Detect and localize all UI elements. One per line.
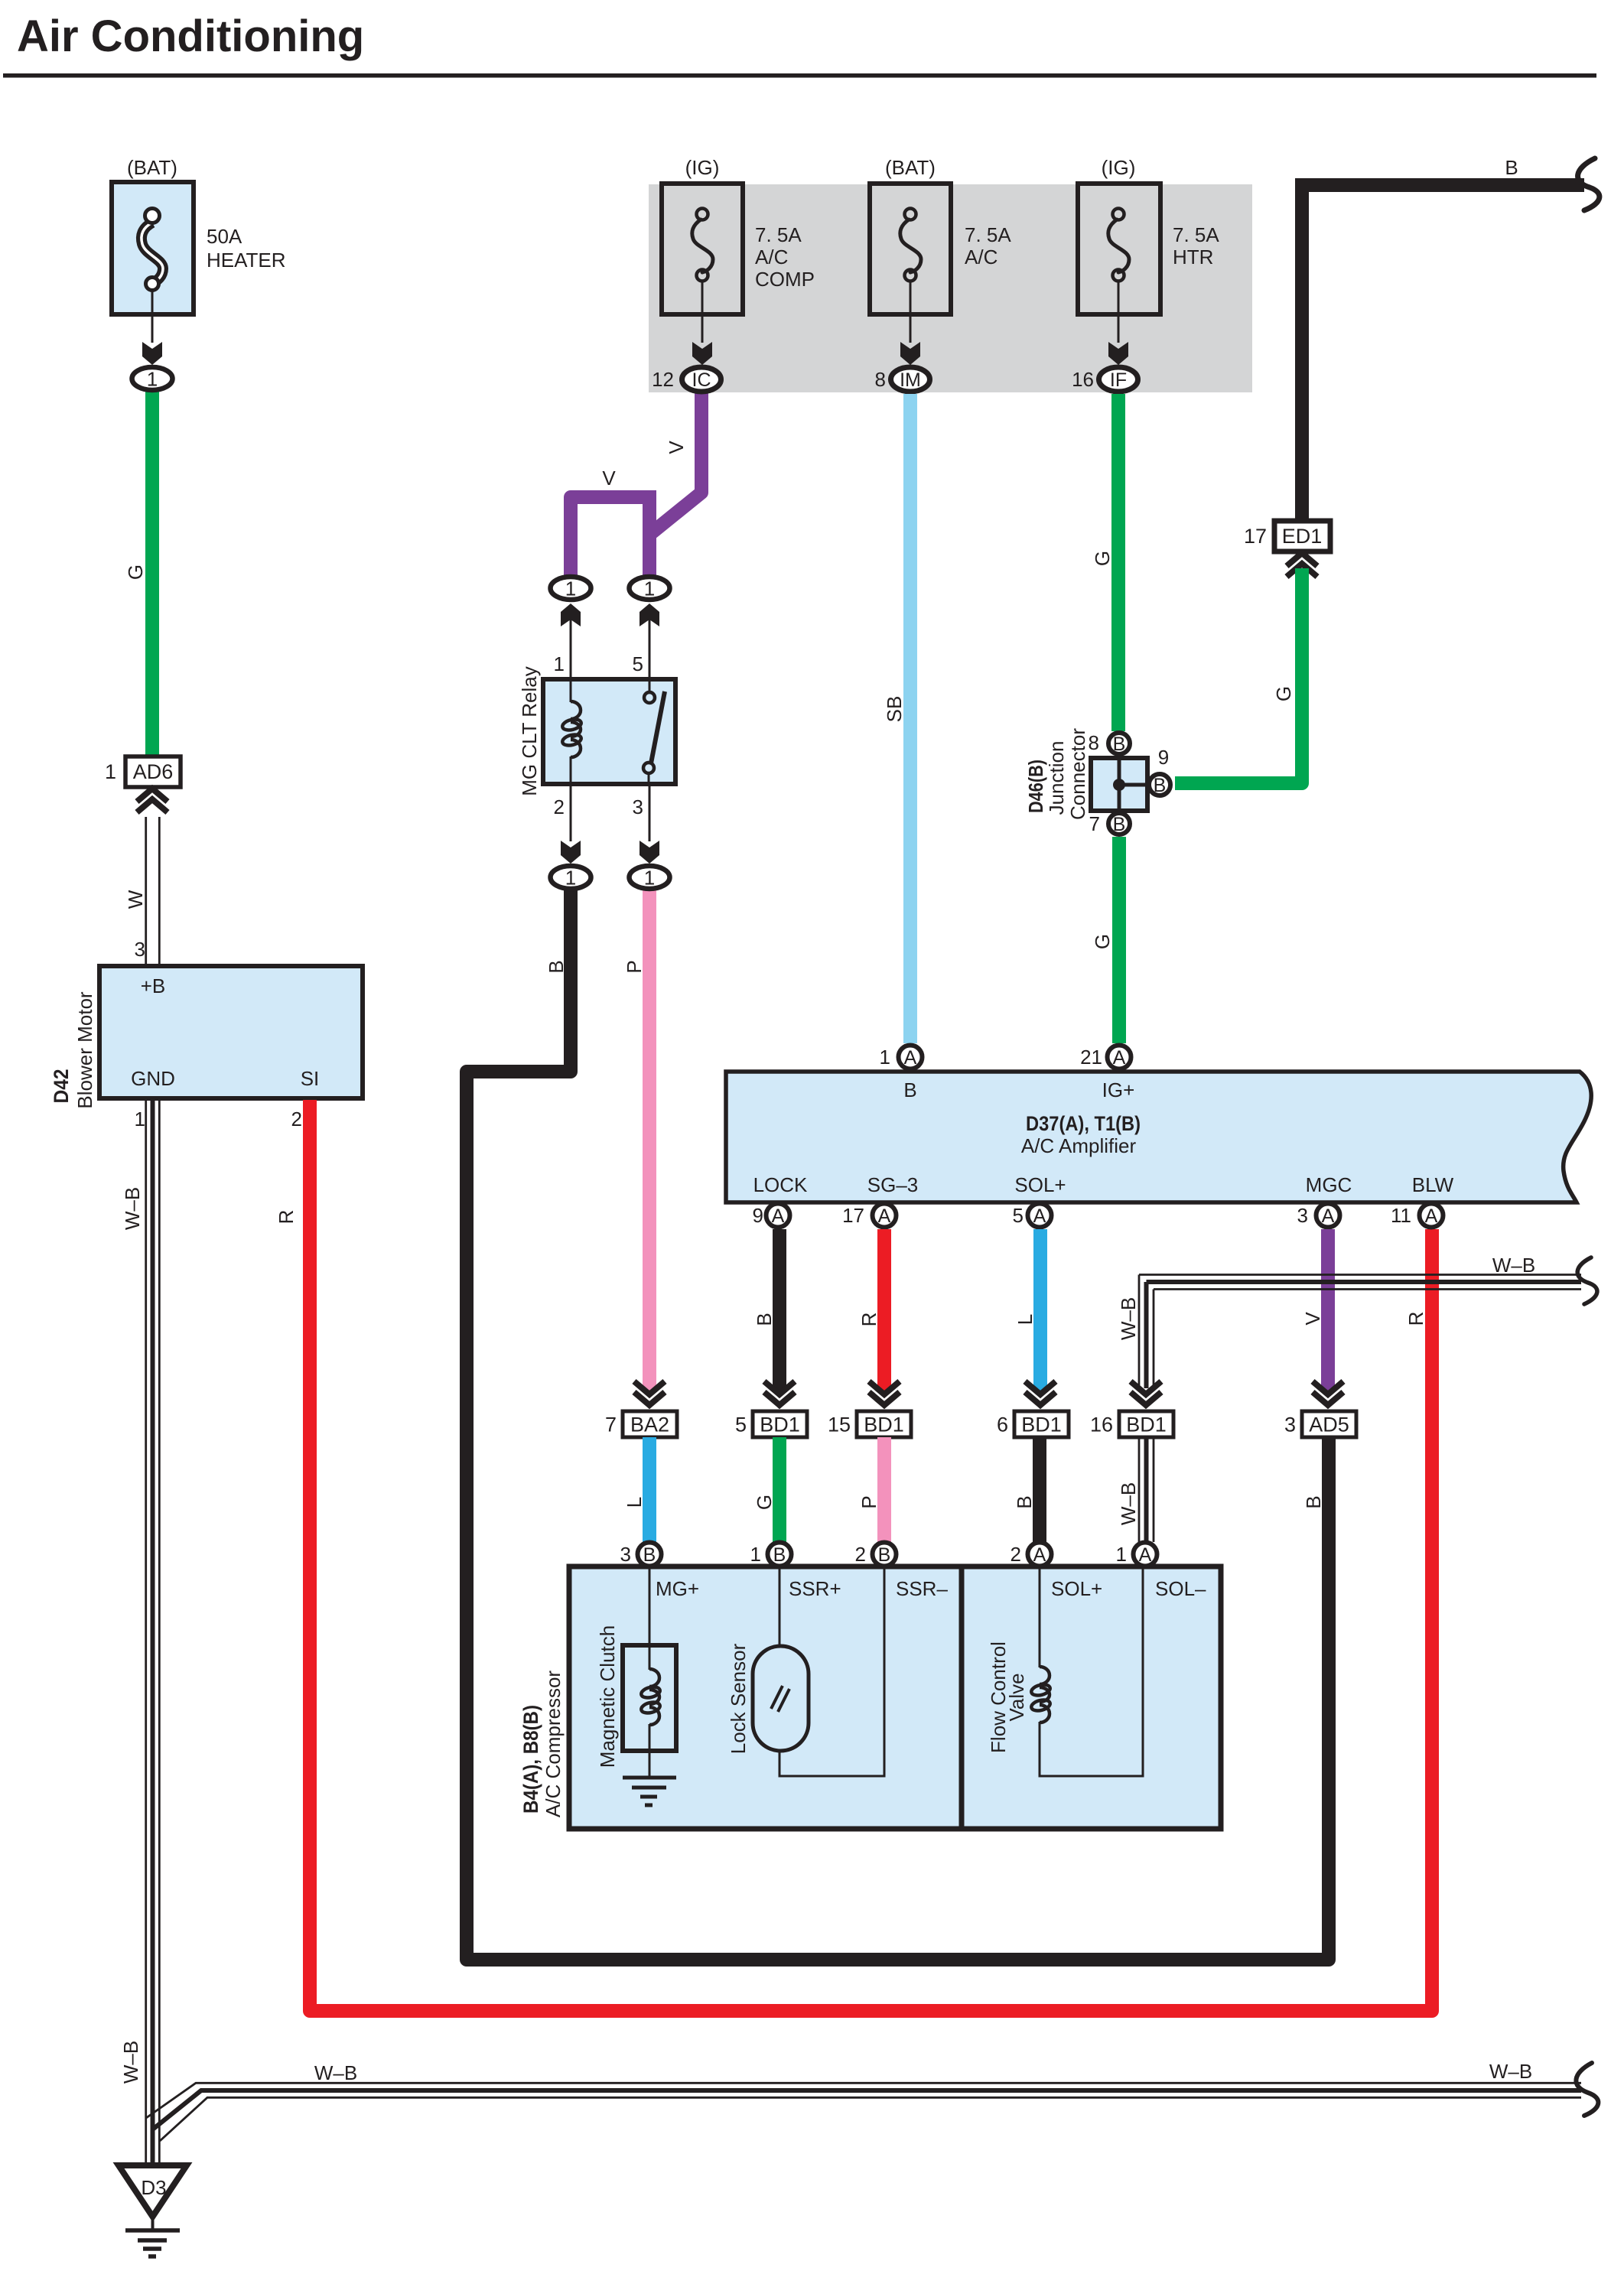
svg-text:IM: IM <box>900 369 921 391</box>
wire from HEATER fuse to connector 1 <box>142 291 162 365</box>
connector 1 (relay pin 1 top) <box>551 577 591 600</box>
connector 1 (relay pin 2 bottom) <box>551 866 591 890</box>
svg-text:1: 1 <box>644 867 655 890</box>
svg-text:W–B: W–B <box>1117 1482 1140 1525</box>
svg-text:A: A <box>1322 1205 1335 1227</box>
svg-text:SSR–: SSR– <box>896 1577 948 1600</box>
svg-text:A: A <box>904 1047 917 1069</box>
svg-text:Air Conditioning: Air Conditioning <box>17 11 364 61</box>
svg-text:Connector: Connector <box>1066 728 1089 820</box>
svg-text:A: A <box>878 1205 891 1227</box>
wire G green: ED1 to junction connector pin 9 <box>1175 568 1302 783</box>
svg-text:V: V <box>1301 1312 1324 1326</box>
arrow into BA2 <box>634 1381 665 1394</box>
svg-text:B: B <box>1505 156 1518 179</box>
svg-text:5: 5 <box>1013 1204 1024 1227</box>
A/C amplifier D37(A), T1(B) <box>726 1072 1591 1202</box>
compressor pin 1 A (SOL-) <box>1116 1543 1157 1566</box>
svg-text:B: B <box>1113 814 1126 835</box>
wire SB sky blue: IM to amplifier pin 1A <box>883 394 910 1043</box>
svg-text:IC: IC <box>692 369 711 391</box>
svg-text:IF: IF <box>1110 369 1127 391</box>
svg-text:W–B: W–B <box>314 2061 357 2084</box>
svg-text:A: A <box>1139 1544 1152 1566</box>
svg-text:1: 1 <box>554 652 565 675</box>
compressor pin 2 B (SSR-) <box>855 1543 897 1566</box>
svg-text:1: 1 <box>565 577 576 600</box>
svg-text:5: 5 <box>735 1414 747 1436</box>
svg-text:1: 1 <box>880 1046 890 1069</box>
svg-text:2: 2 <box>554 795 565 818</box>
svg-text:BA2: BA2 <box>630 1414 669 1436</box>
wire R red: SG-3 to BD1 <box>858 1229 884 1391</box>
svg-text:A: A <box>1033 1205 1046 1227</box>
amplifier pin 21 A (IG+) <box>1080 1046 1131 1069</box>
arrow into BD1 pin 16 <box>1131 1381 1161 1394</box>
svg-text:B: B <box>773 1544 786 1566</box>
svg-text:R: R <box>858 1313 880 1327</box>
arrow into AD5 <box>1313 1381 1343 1394</box>
svg-text:SOL+: SOL+ <box>1014 1173 1066 1196</box>
fuse 50A HEATER (BAT) <box>112 156 286 314</box>
wire relay pin 1 lead <box>554 603 581 679</box>
amplifier pin 1 A (B) <box>880 1046 923 1069</box>
connector 1 (below HEATER fuse) <box>132 367 173 391</box>
svg-text:BLW: BLW <box>1412 1173 1454 1196</box>
svg-text:3: 3 <box>633 795 643 818</box>
svg-text:B: B <box>753 1313 776 1326</box>
svg-text:1: 1 <box>750 1543 761 1566</box>
svg-text:A: A <box>1033 1544 1046 1566</box>
svg-text:BD1: BD1 <box>1126 1414 1167 1436</box>
magnetic clutch <box>596 1566 676 1778</box>
junction connector D46(B) <box>1024 728 1147 820</box>
wire from A/C fuse to IM <box>900 281 920 365</box>
svg-text:A/C Compressor: A/C Compressor <box>542 1671 565 1817</box>
svg-text:12: 12 <box>652 368 674 391</box>
ground D3 <box>119 2165 187 2256</box>
svg-text:Valve: Valve <box>1005 1673 1028 1721</box>
svg-text:3: 3 <box>1284 1414 1296 1436</box>
fuse 7.5A HTR (IG) <box>1078 156 1219 314</box>
svg-text:D42: D42 <box>50 1069 73 1104</box>
svg-text:W–B: W–B <box>121 1187 144 1230</box>
svg-text:SI: SI <box>301 1067 320 1090</box>
wire B black: BD1 to flow control valve SOL+ <box>1013 1437 1040 1542</box>
svg-text:1: 1 <box>147 368 158 391</box>
svg-text:ED1: ED1 <box>1282 525 1323 548</box>
svg-text:50A: 50A <box>207 225 242 248</box>
wire W-B: ground bus to right <box>146 2060 1598 2141</box>
svg-text:7: 7 <box>1089 812 1100 835</box>
svg-text:R: R <box>1404 1312 1427 1326</box>
ground (magnetic clutch) <box>623 1778 676 1805</box>
connector BD1 pin 5 <box>735 1411 807 1437</box>
connector BD1 pin 15 <box>828 1411 911 1437</box>
arrow into BD1 pin 6 <box>1025 1381 1056 1394</box>
svg-text:BD1: BD1 <box>864 1414 904 1436</box>
svg-text:15: 15 <box>828 1414 851 1436</box>
svg-text:5: 5 <box>633 652 643 675</box>
svg-text:D46(B): D46(B) <box>1024 760 1047 813</box>
junction pin 7 B <box>1089 812 1130 835</box>
svg-text:7. 5A: 7. 5A <box>755 223 802 246</box>
wire W-B: BD1 to flow control valve SOL- <box>1117 1437 1154 1542</box>
wire P pink: relay pin 3 to BA2 <box>623 886 649 1391</box>
wire relay pin 3 lead <box>633 784 659 864</box>
svg-text:17: 17 <box>1244 525 1267 548</box>
connector AD6 pin 1 <box>105 756 181 812</box>
svg-text:8: 8 <box>875 368 886 391</box>
connector 12 IC <box>652 367 721 392</box>
arrow into BD1 pin 5 <box>764 1381 795 1394</box>
svg-text:B: B <box>1013 1495 1036 1508</box>
svg-text:L: L <box>1014 1314 1037 1325</box>
svg-text:SSR+: SSR+ <box>789 1577 841 1600</box>
svg-text:G: G <box>124 564 147 580</box>
svg-text:A: A <box>1425 1205 1438 1227</box>
A/C compressor B4(A), B8(B) <box>519 1566 1221 1829</box>
svg-text:7. 5A: 7. 5A <box>965 223 1011 246</box>
connector 8 IM <box>875 367 930 392</box>
svg-text:9: 9 <box>753 1204 763 1227</box>
compressor pin 2 A (SOL+) <box>1011 1543 1052 1566</box>
fuse 7.5A A/C COMP (IG) <box>662 156 815 314</box>
svg-text:W: W <box>124 890 147 909</box>
svg-text:MG CLT Relay: MG CLT Relay <box>518 666 541 796</box>
relay MG CLT Relay <box>518 666 675 796</box>
wire W-B: blower GND to ground D3 <box>119 1100 159 2165</box>
svg-text:2: 2 <box>855 1543 866 1566</box>
svg-text:7: 7 <box>605 1414 617 1436</box>
svg-text:Blower Motor: Blower Motor <box>73 991 96 1108</box>
wire relay pin 2 lead <box>554 784 581 864</box>
svg-text:B4(A), B8(B): B4(A), B8(B) <box>519 1705 542 1814</box>
svg-text:G: G <box>1091 934 1114 949</box>
svg-text:HEATER: HEATER <box>207 249 286 272</box>
svg-text:1: 1 <box>1116 1543 1127 1566</box>
svg-text:1: 1 <box>135 1108 145 1130</box>
svg-text:D3: D3 <box>141 2176 166 2199</box>
svg-text:BD1: BD1 <box>1021 1414 1062 1436</box>
svg-text:W–B: W–B <box>1489 2060 1532 2083</box>
lock sensor <box>727 1566 884 1776</box>
svg-text:11: 11 <box>1391 1204 1411 1227</box>
connector 16 IF <box>1072 367 1137 392</box>
svg-text:P: P <box>858 1495 880 1508</box>
connector BA2 pin 7 <box>605 1411 677 1437</box>
svg-text:17: 17 <box>842 1204 864 1227</box>
svg-text:8: 8 <box>1089 731 1099 754</box>
fuse block background (IG/BAT fuses) <box>649 184 1252 392</box>
svg-text:9: 9 <box>1158 746 1169 769</box>
svg-text:W–B: W–B <box>1117 1297 1140 1340</box>
wire L blue: BA2 to compressor MG+ <box>623 1437 649 1542</box>
svg-text:3: 3 <box>135 938 145 961</box>
svg-text:6: 6 <box>997 1414 1008 1436</box>
svg-text:Lock Sensor: Lock Sensor <box>727 1643 750 1754</box>
amplifier pin 17 A (SG-3) <box>842 1204 896 1228</box>
svg-text:B: B <box>878 1544 891 1566</box>
connector AD5 pin 3 <box>1284 1411 1356 1437</box>
svg-text:2: 2 <box>1011 1543 1021 1566</box>
svg-text:1: 1 <box>565 867 576 890</box>
svg-text:SOL+: SOL+ <box>1051 1577 1102 1600</box>
blower motor D42 <box>50 966 363 1130</box>
connector 1 (relay pin 3 bottom) <box>630 866 670 890</box>
svg-text:B: B <box>1154 775 1167 796</box>
svg-text:1: 1 <box>644 577 655 600</box>
amplifier pin 3 A (MGC) <box>1297 1204 1340 1228</box>
wire B black: battery feed to ED1 <box>1302 156 1600 521</box>
svg-text:A: A <box>772 1205 785 1227</box>
svg-text:21: 21 <box>1080 1046 1102 1069</box>
svg-text:A/C Amplifier: A/C Amplifier <box>1021 1134 1137 1157</box>
amplifier pin 9 A (LOCK) <box>753 1204 790 1228</box>
svg-text:COMP: COMP <box>755 268 815 291</box>
svg-text:V: V <box>602 467 616 490</box>
wire G green: IF to junction connector <box>1091 394 1118 731</box>
svg-text:SB: SB <box>883 696 906 723</box>
svg-text:B: B <box>903 1078 916 1101</box>
wire G green: BD1 to compressor SSR+ <box>753 1437 779 1542</box>
svg-text:BD1: BD1 <box>760 1414 800 1436</box>
svg-text:AD5: AD5 <box>1309 1414 1349 1436</box>
wire W white: AD6 to blower motor +B <box>124 817 159 966</box>
svg-text:V: V <box>665 441 688 454</box>
compressor pin 1 B (SSR+) <box>750 1543 792 1566</box>
svg-text:Junction: Junction <box>1045 741 1068 815</box>
flow control valve <box>987 1566 1143 1776</box>
connector 1 (relay pin 5 top) <box>630 577 670 600</box>
svg-text:1: 1 <box>105 760 116 783</box>
svg-text:D37(A), T1(B): D37(A), T1(B) <box>1026 1112 1141 1135</box>
svg-text:P: P <box>623 960 646 973</box>
svg-text:R: R <box>275 1210 298 1225</box>
junction pin 9 B <box>1149 746 1170 796</box>
wire W-B: right feed to BD1 pin 16 <box>1117 1254 1597 1388</box>
svg-text:SOL–: SOL– <box>1155 1577 1206 1600</box>
svg-text:W–B: W–B <box>1492 1254 1535 1277</box>
junction pin 8 B <box>1089 731 1130 755</box>
svg-text:16: 16 <box>1072 368 1094 391</box>
wire L blue: SOL+ to BD1 <box>1014 1229 1040 1391</box>
svg-text:G: G <box>1272 686 1295 701</box>
svg-text:IG+: IG+ <box>1102 1078 1135 1101</box>
wire B black: relay pin 2 to AD5 via bottom run <box>467 886 1329 1960</box>
amplifier pin 11 A (BLW) <box>1391 1204 1443 1228</box>
wire V violet: MGC to AD5 <box>1301 1229 1328 1391</box>
svg-text:G: G <box>1091 551 1114 566</box>
title: Air Conditioning <box>3 11 1596 78</box>
svg-text:16: 16 <box>1090 1414 1113 1436</box>
svg-text:B: B <box>643 1544 656 1566</box>
svg-text:MGC: MGC <box>1306 1173 1352 1196</box>
svg-text:7. 5A: 7. 5A <box>1173 223 1219 246</box>
connector ED1 pin 17 <box>1244 521 1330 577</box>
svg-text:(BAT): (BAT) <box>127 156 177 179</box>
wire B black: LOCK to BD1 <box>753 1229 779 1391</box>
svg-text:AD6: AD6 <box>133 760 174 783</box>
wire relay pin 5 lead <box>633 603 659 679</box>
svg-text:B: B <box>1113 734 1126 755</box>
fuse 7.5A A/C (BAT) <box>870 156 1011 314</box>
svg-text:Magnetic Clutch: Magnetic Clutch <box>596 1625 619 1768</box>
svg-text:3: 3 <box>620 1543 631 1566</box>
svg-text:B: B <box>1302 1495 1325 1508</box>
connector BD1 pin 6 <box>997 1411 1069 1437</box>
arrow into BD1 pin 15 <box>869 1381 900 1394</box>
svg-text:+B: +B <box>141 974 166 997</box>
wire G green: fuse 1 to AD6 <box>124 390 152 759</box>
svg-text:SG–3: SG–3 <box>867 1173 919 1196</box>
svg-text:A/C: A/C <box>965 246 998 268</box>
svg-text:G: G <box>753 1495 776 1510</box>
wire R red: blower SI to A/C amplifier BLW <box>275 1100 1432 2011</box>
svg-text:GND: GND <box>131 1067 175 1090</box>
svg-text:A/C: A/C <box>755 246 788 268</box>
svg-text:L: L <box>623 1497 646 1508</box>
svg-text:LOCK: LOCK <box>753 1173 808 1196</box>
svg-text:3: 3 <box>1297 1204 1308 1227</box>
amplifier pin 5 A (SOL+) <box>1013 1204 1052 1228</box>
wire from A/C COMP fuse to IC <box>692 281 712 365</box>
compressor pin 3 B (MG+) <box>620 1543 662 1566</box>
wire V violet: IC to MG CLT relay coil and contact <box>571 382 701 576</box>
wire P pink: BD1 to compressor SSR- <box>858 1437 884 1542</box>
svg-text:HTR: HTR <box>1173 246 1213 268</box>
svg-text:A: A <box>1113 1047 1126 1069</box>
svg-text:(IG): (IG) <box>1102 156 1136 179</box>
wire G green: junction pin 7 to amplifier pin 21A <box>1091 837 1119 1043</box>
svg-text:B: B <box>545 960 568 973</box>
svg-text:W–B: W–B <box>119 2041 142 2084</box>
svg-text:(BAT): (BAT) <box>885 156 936 179</box>
wire from HTR fuse to IF <box>1108 281 1128 365</box>
svg-text:2: 2 <box>291 1108 302 1130</box>
svg-text:MG+: MG+ <box>656 1577 699 1600</box>
connector BD1 pin 16 <box>1090 1411 1173 1437</box>
svg-text:(IG): (IG) <box>685 156 720 179</box>
